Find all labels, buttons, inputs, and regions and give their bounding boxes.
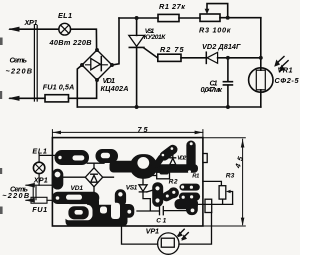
- svg-text:R1: R1: [192, 174, 199, 180]
- svg-text:40Вт 220В: 40Вт 220В: [49, 38, 92, 47]
- svg-text:КУ201К: КУ201К: [144, 34, 166, 41]
- svg-text:R1 27к: R1 27к: [159, 2, 185, 11]
- svg-text:EL1: EL1: [58, 11, 72, 20]
- svg-text:VR1: VR1: [278, 66, 293, 75]
- svg-text:FU1: FU1: [32, 205, 47, 214]
- svg-text:75: 75: [138, 125, 149, 134]
- svg-text:XP1: XP1: [33, 175, 48, 184]
- svg-text:R2 75: R2 75: [160, 45, 184, 54]
- svg-text:R3: R3: [226, 172, 235, 179]
- svg-text:VD1: VD1: [71, 185, 84, 192]
- svg-text:VD2: VD2: [177, 155, 187, 161]
- svg-text:~220В: ~220В: [2, 191, 29, 200]
- svg-text:0,047мк: 0,047мк: [201, 85, 223, 94]
- svg-text:VP1: VP1: [146, 227, 160, 236]
- svg-text:КЦ402А: КЦ402А: [101, 84, 129, 93]
- svg-text:XP1: XP1: [24, 18, 38, 27]
- svg-text:R2: R2: [169, 178, 178, 185]
- svg-text:EL1: EL1: [32, 146, 47, 155]
- svg-text:~220В: ~220В: [6, 67, 33, 76]
- svg-text:Сеть: Сеть: [10, 56, 28, 65]
- svg-text:R3 100к: R3 100к: [199, 25, 231, 34]
- svg-text:VS1: VS1: [126, 184, 138, 191]
- svg-text:СФ2-5: СФ2-5: [275, 76, 300, 85]
- svg-text:VD2 Д814Г: VD2 Д814Г: [202, 42, 241, 51]
- svg-text:FU1 0,5А: FU1 0,5А: [43, 83, 75, 92]
